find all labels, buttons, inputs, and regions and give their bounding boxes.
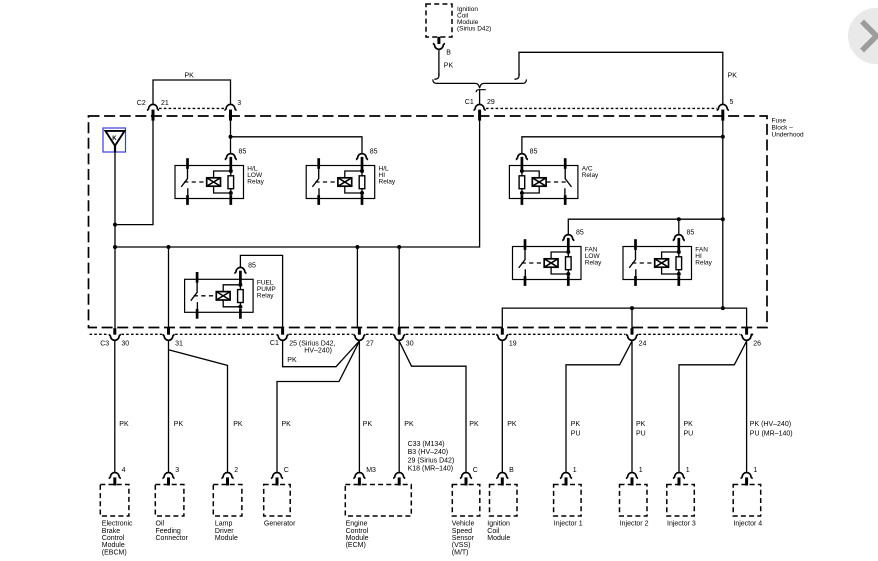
relay FAN LOW K4 coil branch wire xyxy=(567,252,569,275)
relay H/L LOW K1 switch blade xyxy=(181,169,188,196)
svg-text:Relay: Relay xyxy=(585,260,602,267)
relay FAN HI K5 switch blade xyxy=(629,250,636,277)
wire bus drop to pin 30 xyxy=(398,247,400,328)
relay FAN HI K5 coil branch wire xyxy=(678,252,680,275)
relay FAN LOW K4 branch junction dots xyxy=(566,250,570,276)
connector C2 dotted face line xyxy=(159,107,225,109)
svg-text:24: 24 xyxy=(639,340,647,347)
svg-text:2: 2 xyxy=(234,467,238,474)
connector at generator xyxy=(271,473,283,486)
connector face dotted line C3/C1 xyxy=(90,333,754,335)
svg-text:C33 (M134): C33 (M134) xyxy=(408,441,445,448)
junction bottom bus pin 24 xyxy=(630,306,634,310)
connector C1 pin 30 xyxy=(393,328,405,340)
svg-text:1: 1 xyxy=(686,467,690,474)
svg-text:PU (MR–140): PU (MR–140) xyxy=(750,430,793,437)
relay FAN HI K5 pin 85 connector xyxy=(673,235,685,241)
connector at EBCM xyxy=(109,473,121,486)
connector at injector 3 xyxy=(673,473,685,486)
svg-text:1: 1 xyxy=(573,467,577,474)
connector at injector 4 xyxy=(741,473,753,486)
connector at injector 1 xyxy=(560,473,572,486)
svg-text:Injector 4: Injector 4 xyxy=(733,521,762,528)
relay H/L HI K2 pin 85 connector xyxy=(356,154,368,160)
connector C1 pin 19 xyxy=(496,328,508,340)
connector at VSS xyxy=(460,473,472,486)
trunk wire from pin 5 xyxy=(722,120,724,309)
svg-text:30: 30 xyxy=(121,340,129,347)
relay H/L HI K2 pin 85 stub xyxy=(361,157,364,205)
relay A/C K3 pin 85 connector xyxy=(516,154,528,160)
fuse block underhood boundary xyxy=(89,116,768,328)
svg-text:Module: Module xyxy=(102,542,125,549)
splice output crook xyxy=(476,90,486,93)
svg-text:PK: PK xyxy=(507,421,517,428)
svg-text:B3 (HV–240): B3 (HV–240) xyxy=(408,449,448,456)
svg-text:85: 85 xyxy=(687,230,695,237)
svg-text:85: 85 xyxy=(248,262,256,269)
relay FUEL PUMP K6 coil branch wire xyxy=(239,284,241,307)
relay H/L LOW K1 box xyxy=(175,166,244,199)
relay H/L HI K2 coil branch wire xyxy=(361,171,363,194)
svg-text:Oil: Oil xyxy=(156,521,165,528)
svg-text:PK: PK xyxy=(185,73,195,80)
relay FAN HI K5 coil xyxy=(655,259,669,267)
svg-text:4: 4 xyxy=(122,467,126,474)
relay FAN HI K5 actuator dashed link xyxy=(632,262,654,264)
svg-text:Coil: Coil xyxy=(487,528,500,535)
relay FAN LOW K4 resistor xyxy=(566,257,572,270)
relay FAN LOW K4 box xyxy=(513,247,582,280)
wire bottom bus drop to pin 24 xyxy=(631,308,633,328)
svg-text:K18 (MR–140): K18 (MR–140) xyxy=(408,466,454,473)
connector at ECM xyxy=(353,473,365,486)
wire pin 26 to injector 4 xyxy=(746,340,748,472)
svg-text:Brake: Brake xyxy=(102,528,120,535)
svg-text:PK: PK xyxy=(119,421,129,428)
svg-text:PU: PU xyxy=(636,430,646,437)
svg-text:Relay: Relay xyxy=(379,179,396,186)
svg-text:(ECM): (ECM) xyxy=(346,542,366,549)
relay H/L LOW K1 switch pin stubs xyxy=(186,158,189,205)
svg-text:Relay: Relay xyxy=(247,179,264,186)
relay H/L HI K2 box xyxy=(306,166,375,199)
junction bus left xyxy=(113,245,117,249)
svg-text:(M/T): (M/T) xyxy=(452,549,469,556)
relay H/L LOW K1 coil parallel loop xyxy=(214,171,231,193)
svg-text:Feeding: Feeding xyxy=(156,528,181,535)
wire to H/L HI relay 85 xyxy=(231,137,363,154)
relay FAN HI K5 switch pin stubs xyxy=(634,239,637,286)
svg-text:(EBCM): (EBCM) xyxy=(102,549,127,556)
svg-text:29: 29 xyxy=(487,99,495,106)
connector C2 pin 3 xyxy=(224,104,236,120)
svg-text:27: 27 xyxy=(366,340,374,347)
svg-text:PK: PK xyxy=(233,421,243,428)
svg-text:30: 30 xyxy=(406,340,414,347)
splice hook right xyxy=(515,74,520,80)
relay FAN HI K5 pin 85 stub xyxy=(677,238,680,286)
svg-text:Injector 1: Injector 1 xyxy=(554,521,583,528)
connector at injector 2 xyxy=(626,473,638,486)
svg-text:PK: PK xyxy=(287,357,297,364)
relay FUEL PUMP K6 switch pin stubs xyxy=(196,272,199,319)
connector at oil feeding connector xyxy=(162,473,174,486)
relay A/C K3 switch pin stubs xyxy=(564,158,567,205)
relay FAN LOW K4 pin 85 stub xyxy=(567,238,570,286)
wire branch to lamp driver module xyxy=(169,350,228,472)
relay FUEL PUMP K6 branch junction dots xyxy=(238,283,242,309)
relay A/C K3 coil xyxy=(532,178,546,186)
svg-text:B: B xyxy=(446,50,451,57)
wire fuel pump relay 85 to C1 pin 25 xyxy=(240,255,282,328)
svg-text:19: 19 xyxy=(509,340,517,347)
relay FUEL PUMP K6 box xyxy=(185,279,254,312)
svg-text:Driver: Driver xyxy=(215,528,234,535)
wire branch pin 24 to injector 1 xyxy=(566,341,632,472)
relay FAN HI K5 resistor xyxy=(676,257,682,270)
svg-text:(VSS): (VSS) xyxy=(452,542,471,549)
svg-text:25 (Sirius D42,: 25 (Sirius D42, xyxy=(289,340,335,347)
relay H/L HI K2 coil parallel loop xyxy=(345,171,362,193)
svg-text:3: 3 xyxy=(175,467,179,474)
relay A/C K3 resistor xyxy=(519,176,525,189)
connector at ignition coil module (bottom) xyxy=(496,473,508,486)
relay H/L LOW K1 pin 85 connector xyxy=(225,154,237,160)
svg-text:(Sirius D42): (Sirius D42) xyxy=(457,25,491,32)
relay FUEL PUMP K6 actuator dashed link xyxy=(194,295,216,297)
connector C1 dotted face line xyxy=(486,107,717,109)
relay A/C K3 box xyxy=(509,166,578,199)
bottom bus wire xyxy=(502,308,746,328)
relay FAN LOW K4 switch pin stubs xyxy=(524,239,527,286)
relay FAN LOW K4 actuator dashed link xyxy=(522,262,544,264)
junction bus pin 30 xyxy=(397,245,401,249)
svg-text:21: 21 xyxy=(161,100,169,107)
ECM box xyxy=(345,485,411,517)
svg-text:Sensor: Sensor xyxy=(452,535,475,542)
wire from C2 pin 21 into block xyxy=(115,120,153,225)
relay H/L HI K2 actuator dashed link xyxy=(315,181,337,183)
wire branch pin 26 to injector 3 xyxy=(679,341,747,472)
svg-text:HV–240): HV–240) xyxy=(304,348,332,355)
relay FUEL PUMP K6 pin 85 stub xyxy=(239,271,242,319)
svg-text:Injector 3: Injector 3 xyxy=(667,521,696,528)
junction trunk bottom bus xyxy=(721,306,725,310)
relay FAN HI K5 coil parallel loop xyxy=(662,252,679,274)
relay FUEL PUMP K6 coil xyxy=(216,292,230,300)
svg-text:Relay: Relay xyxy=(695,260,712,267)
wire branch pin 27 to generator xyxy=(277,341,359,472)
svg-text:PK: PK xyxy=(684,421,694,428)
svg-text:1: 1 xyxy=(639,467,643,474)
svg-text:Engine: Engine xyxy=(346,521,368,528)
relay H/L HI K2 switch pin stubs xyxy=(317,158,320,205)
svg-text:Ignition: Ignition xyxy=(487,521,510,528)
svg-text:85: 85 xyxy=(576,230,584,237)
wire bus drop to pin 27 xyxy=(356,247,358,328)
svg-text:C: C xyxy=(473,467,478,474)
relay FAN LOW K4 coil xyxy=(544,259,558,267)
splice hook left xyxy=(434,74,439,80)
wire FAN HI relay 85 drop xyxy=(678,219,680,234)
wire pin 31 to oil feeding connector xyxy=(168,340,170,472)
connector C2 pin 21 xyxy=(147,104,159,120)
svg-text:PU: PU xyxy=(684,430,694,437)
svg-text:85: 85 xyxy=(239,149,247,156)
connector at lamp driver module xyxy=(221,473,233,486)
injector 4 box xyxy=(733,485,761,517)
wire PK from ignition coil module xyxy=(438,50,440,76)
relay FUEL PUMP K6 coil parallel loop xyxy=(223,285,240,307)
relay H/L HI K2 coil xyxy=(338,178,352,186)
svg-text:C2: C2 xyxy=(137,100,146,107)
wire pin 24 to injector 2 xyxy=(631,340,633,472)
relay FUEL PUMP K6 pin 85 connector xyxy=(234,267,246,273)
wire fan relays 85 feed xyxy=(568,219,723,234)
relay H/L LOW K1 actuator dashed link xyxy=(184,181,206,183)
junction fan hi feed xyxy=(677,217,681,221)
relay FAN HI K5 box xyxy=(623,247,692,280)
wire C2 pin 3 to H/L LOW relay 85 xyxy=(230,120,232,154)
svg-text:PU: PU xyxy=(571,430,581,437)
relay H/L HI K2 branch junction dots xyxy=(360,169,364,195)
svg-text:C3: C3 xyxy=(100,340,109,347)
wire splice to connector C1 pin 29 xyxy=(479,90,481,105)
svg-text:PK: PK xyxy=(571,421,581,428)
connector C3 pin 30 xyxy=(109,328,121,340)
svg-text:Lamp: Lamp xyxy=(215,521,233,528)
connector C1 pin 24 xyxy=(626,328,638,340)
relay FAN LOW K4 switch blade xyxy=(519,250,526,277)
svg-text:Control: Control xyxy=(102,535,125,542)
relay FUEL PUMP K6 resistor xyxy=(238,290,244,303)
svg-text:3: 3 xyxy=(237,100,241,107)
junction trunk A/C xyxy=(721,135,725,139)
wire A/C relay 85 feed xyxy=(522,137,723,154)
wire PK from fuse block pin 5 xyxy=(519,52,723,104)
wire pin 30 to ECM C33 xyxy=(398,340,400,472)
connector C1 pin 26 xyxy=(741,328,753,340)
svg-text:Control: Control xyxy=(346,528,369,535)
wire PK jumper C2-21 to C2-3 xyxy=(153,80,231,105)
svg-text:Relay: Relay xyxy=(257,292,274,299)
wire pin 30 to EBCM xyxy=(114,340,116,472)
svg-text:M3: M3 xyxy=(366,467,376,474)
svg-text:5: 5 xyxy=(730,99,734,106)
junction bus pin 27 xyxy=(355,245,359,249)
svg-text:85: 85 xyxy=(370,149,378,156)
svg-text:PK: PK xyxy=(444,62,454,69)
svg-text:1: 1 xyxy=(753,467,757,474)
svg-text:C1: C1 xyxy=(465,99,474,106)
svg-text:Generator: Generator xyxy=(264,521,296,528)
svg-text:Module: Module xyxy=(487,535,510,542)
svg-text:Speed: Speed xyxy=(452,528,472,535)
svg-text:K: K xyxy=(112,136,117,142)
svg-text:Vehicle: Vehicle xyxy=(452,521,475,528)
splice bracket xyxy=(433,79,527,87)
relay A/C K3 coil branch wire xyxy=(521,171,523,194)
relay FUEL PUMP K6 switch blade xyxy=(191,282,198,309)
svg-text:PK: PK xyxy=(363,421,373,428)
relay A/C K3 actuator dashed link xyxy=(546,181,568,183)
junction trunk fans xyxy=(721,217,725,221)
wire K reference to C3 pin 30 xyxy=(114,152,116,328)
connector C1 pin 27 xyxy=(353,328,365,340)
ignition coil module pin B stub xyxy=(437,37,440,44)
svg-text:Injector 2: Injector 2 xyxy=(620,521,649,528)
svg-text:PK: PK xyxy=(469,421,479,428)
connector C3 pin 31 xyxy=(162,328,174,340)
svg-text:PK (HV–240): PK (HV–240) xyxy=(750,421,791,428)
connector at ECM pin C33 xyxy=(393,473,405,486)
svg-text:B: B xyxy=(509,467,514,474)
relay A/C K3 pin 85 stub xyxy=(521,157,524,205)
svg-text:PK: PK xyxy=(404,421,414,428)
carousel next button xyxy=(848,8,878,64)
svg-text:31: 31 xyxy=(175,340,183,347)
ignition coil module (bottom) box xyxy=(490,485,518,517)
injector 3 box xyxy=(667,485,695,517)
relay H/L HI K2 switch blade xyxy=(312,169,319,196)
injector 2 box xyxy=(620,485,648,517)
reference K symbol xyxy=(103,128,126,153)
relay H/L LOW K1 coil branch wire xyxy=(230,171,232,194)
relay H/L LOW K1 resistor xyxy=(228,176,234,189)
wire pin 27 to ECM M3 xyxy=(358,340,360,472)
relay H/L HI K2 resistor xyxy=(359,176,365,189)
wire pin 25 jumper to pin 27 xyxy=(283,341,360,367)
connector C1 pin 29 xyxy=(474,104,486,120)
svg-text:PK: PK xyxy=(174,421,184,428)
EBCM box xyxy=(100,485,129,517)
relay A/C K3 switch blade xyxy=(565,169,572,196)
svg-text:PK: PK xyxy=(282,421,292,428)
svg-text:PK: PK xyxy=(728,73,738,80)
svg-text:Underhood: Underhood xyxy=(772,131,805,138)
VSS box xyxy=(452,485,480,517)
svg-text:Electronic: Electronic xyxy=(102,521,133,528)
svg-text:85: 85 xyxy=(530,149,538,156)
relay FAN LOW K4 coil parallel loop xyxy=(551,252,568,274)
lamp driver module box xyxy=(213,485,242,517)
connector C1 pin 25 xyxy=(277,328,289,340)
junction at jog xyxy=(113,223,117,227)
relay FAN HI K5 branch junction dots xyxy=(677,250,681,276)
bus wire to C1 pin 29 xyxy=(115,120,480,247)
svg-text:Relay: Relay xyxy=(582,172,599,179)
ignition coil module pin B connector xyxy=(433,43,445,49)
oil feeding connector box xyxy=(155,485,184,517)
wire pin 19 to ignition coil module xyxy=(501,340,503,472)
relay A/C K3 coil parallel loop xyxy=(522,171,539,193)
relay H/L LOW K1 branch junction dots xyxy=(229,169,233,195)
svg-text:C: C xyxy=(284,467,289,474)
ignition coil module (top) box xyxy=(426,4,452,37)
junction H/L branch xyxy=(229,135,233,139)
relay H/L LOW K1 pin 85 stub xyxy=(229,157,232,205)
generator box xyxy=(264,485,291,517)
svg-text:Module: Module xyxy=(215,535,238,542)
relay A/C K3 branch junction dots xyxy=(520,169,524,195)
wire bus drop to pin 31 xyxy=(168,247,170,328)
injector 1 box xyxy=(554,485,582,517)
svg-text:29 (Sirius D42): 29 (Sirius D42) xyxy=(408,457,455,464)
wire branch pin 30 to VSS xyxy=(399,341,466,472)
svg-text:26: 26 xyxy=(753,340,761,347)
junction bus pin 31 xyxy=(167,245,171,249)
relay FAN LOW K4 pin 85 connector xyxy=(562,235,574,241)
svg-text:C1: C1 xyxy=(270,340,279,347)
connector C1 pin 5 xyxy=(717,104,729,120)
svg-text:Module: Module xyxy=(346,535,369,542)
svg-text:PK: PK xyxy=(636,421,646,428)
relay H/L LOW K1 coil xyxy=(207,178,221,186)
svg-text:Connector: Connector xyxy=(156,535,189,542)
